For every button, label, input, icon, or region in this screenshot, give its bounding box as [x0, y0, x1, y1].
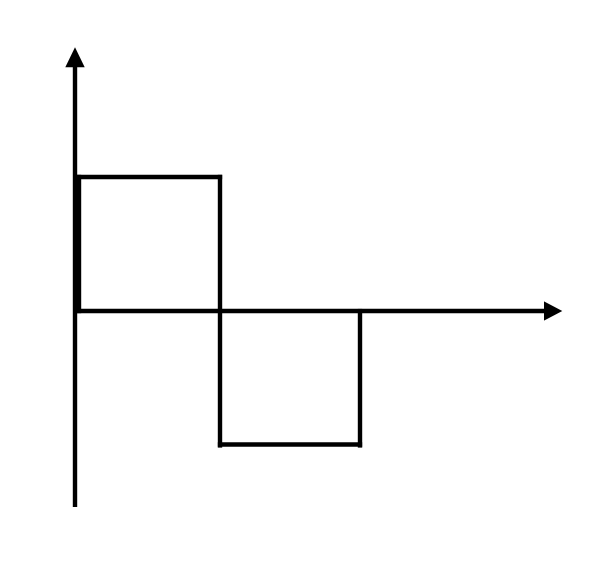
x-axis arrowhead	[544, 301, 562, 320]
wire: rising edge back to zero	[358, 309, 362, 448]
wire: square-wave rising edge at origin (bold, beside y-axis)	[77, 175, 81, 313]
wire: falling edge	[218, 175, 222, 448]
y-axis	[73, 64, 77, 507]
x-axis	[73, 309, 546, 313]
wire: positive pulse top	[77, 175, 222, 179]
y-axis arrowhead	[65, 47, 84, 67]
wire: negative pulse bottom	[218, 442, 362, 446]
